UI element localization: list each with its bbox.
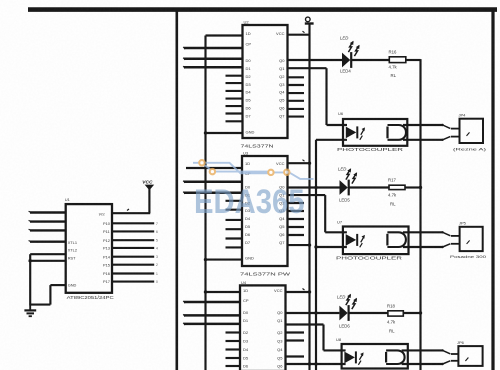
wire resistor to rail COM [406, 59, 421, 61]
IC U4 octal driver [240, 280, 286, 370]
junction rail K block2 [314, 186, 317, 189]
net bus GNDL vertical [204, 36, 206, 370]
optocoupler U8 [336, 337, 408, 369]
resistor R16 [389, 50, 406, 79]
IC U2 octal driver [241, 20, 288, 150]
watermark EDA365 logo [193, 160, 314, 179]
wire U3 bottom pin to rail [288, 243, 312, 246]
wire U4 right pin stubs [286, 333, 305, 357]
wire U2 right pin stubs [288, 77, 305, 116]
wire U2 data inputs [183, 47, 242, 68]
net rail COM vertical [419, 59, 421, 370]
wire U2 VCC pin to rail [288, 31, 310, 35]
connector JP4 [453, 113, 487, 152]
wire U3 output to LED2 [288, 186, 340, 188]
wire U2 output to opto1 anode [288, 68, 348, 125]
resistor R18 [387, 304, 403, 334]
wire LED1 to resistor [352, 59, 389, 61]
wire U4 pin1 to bus [204, 290, 240, 293]
wire U3 data inputs [183, 181, 242, 194]
wire opto1 cathode to rail K [316, 139, 347, 141]
optocoupler U7 [336, 220, 409, 261]
net rail VCC vertical [308, 24, 310, 370]
wire U3 pin1 to bus [186, 167, 242, 169]
LED D3 indicator [337, 294, 357, 329]
wire U2 output to LED1 [288, 59, 343, 61]
connector JP6 [457, 340, 483, 366]
wire U3 GND pin to bus [204, 258, 242, 261]
wire U4 VCC pin to rail [286, 289, 312, 294]
junction rail K block3 [314, 311, 317, 314]
wire U3 VCC pin to rail [288, 160, 312, 165]
wire U3 right pin stubs [288, 203, 305, 235]
net rail K vertical [315, 140, 317, 370]
wire U3 output to opto2 anode [288, 195, 347, 232]
wire opto2 cathode to rail K [314, 245, 347, 248]
wire U1 left inputs [29, 211, 66, 241]
wire opto3 cathode to rail K [286, 362, 346, 365]
wire opto2 outputs to connector [403, 231, 460, 248]
LED D1 indicator [340, 36, 360, 74]
wire U4 output to LED3 [286, 312, 340, 314]
wire LED3 to resistor [349, 312, 388, 314]
wire opto3 outputs to connector [402, 349, 459, 365]
optocoupler U6 [337, 111, 407, 152]
wire opto1 outputs to connector [403, 124, 460, 141]
power symbol VCC top [305, 17, 314, 23]
wire U1 VCC pin [112, 209, 150, 213]
LED D2 indicator [338, 167, 357, 203]
wire U4 output to opto3 anode [286, 325, 346, 351]
wire U4 left pin stubs [226, 333, 241, 367]
ground [24, 305, 36, 317]
wire U1 XTAL pins [29, 254, 66, 304]
wire resistor to rail COM [405, 186, 422, 189]
connector JP5 [450, 221, 487, 260]
wire U2 left pin stubs [226, 76, 243, 122]
wire U1 RST to ground [29, 285, 65, 305]
watermark EDA365 text [194, 183, 305, 221]
wire U1 port P1 outputs [112, 222, 158, 284]
IC U3 octal driver [240, 151, 291, 278]
wire U4 data inputs [183, 301, 240, 325]
wire LED2 to resistor [350, 186, 390, 188]
MCU U1 [65, 197, 114, 300]
wire resistor to rail COM [403, 311, 422, 314]
resistor R17 [388, 178, 405, 207]
power symbol VCC U1 [142, 180, 154, 214]
wire U2 pin1 to bus [206, 34, 243, 36]
wire U2 GND pin to bus [204, 131, 243, 134]
wire U3 left pin stubs [226, 201, 243, 248]
